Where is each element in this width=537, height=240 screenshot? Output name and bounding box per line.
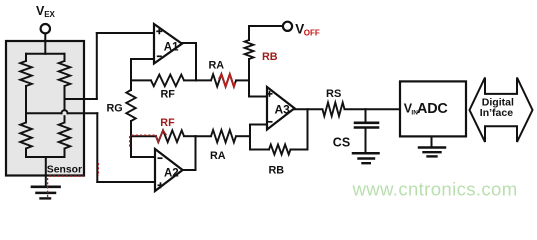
svg-text:RF: RF [160, 117, 175, 129]
svg-text:EX: EX [44, 10, 55, 19]
svg-text:In’face: In’face [480, 107, 513, 119]
svg-text:A3: A3 [275, 103, 291, 117]
svg-text:Sensor: Sensor [47, 164, 82, 175]
svg-text:RS: RS [326, 88, 341, 100]
svg-text:RG: RG [107, 103, 123, 115]
svg-text:OFF: OFF [304, 29, 320, 38]
svg-text:A1: A1 [164, 41, 179, 53]
svg-text:www.cntronics.com: www.cntronics.com [352, 178, 518, 199]
svg-text:RF: RF [161, 89, 176, 101]
svg-text:RA: RA [209, 60, 225, 72]
svg-text:RB: RB [262, 51, 278, 63]
svg-text:CS: CS [333, 136, 350, 150]
svg-text:RB: RB [269, 164, 285, 176]
svg-text:ADC: ADC [417, 101, 448, 117]
svg-text:RA: RA [210, 150, 226, 162]
svg-text:A2: A2 [164, 167, 179, 179]
